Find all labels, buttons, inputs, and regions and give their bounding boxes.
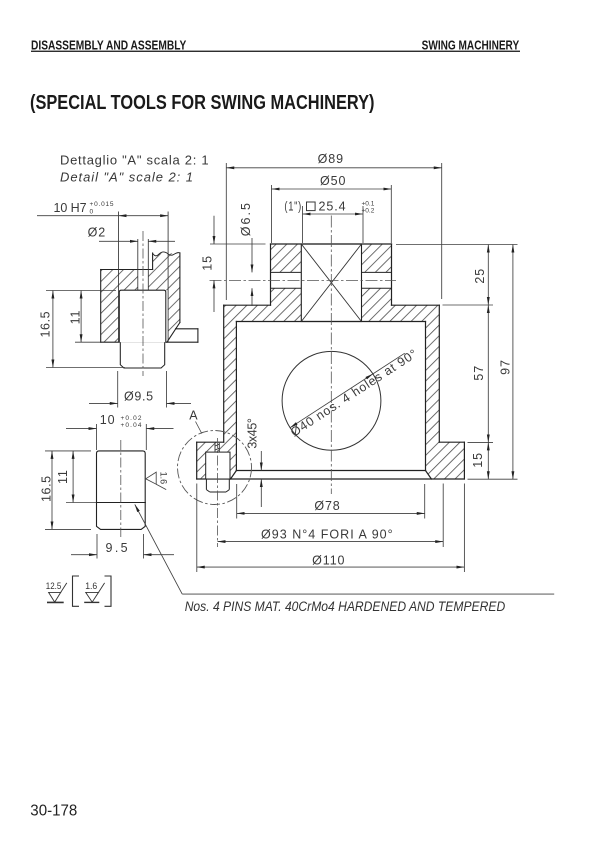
cavity bottom (236, 470, 425, 472)
detail outline (101, 252, 198, 342)
ext 11 bottom (75, 341, 101, 343)
dim 57 line (487, 305, 489, 442)
roughness symbol on pin (146, 472, 167, 490)
dim 3x45 upper (260, 451, 262, 471)
dim 16.5 line (51, 451, 53, 530)
dim 6.5 upper (251, 238, 253, 272)
dim 6.5 lower (251, 288, 253, 306)
svg-text:(1"): (1") (284, 200, 302, 214)
pin in flange (206, 452, 230, 492)
body left wall (223, 305, 225, 442)
hatch left strip (101, 270, 119, 343)
dim 9.5 left (71, 554, 97, 556)
svg-text:Ø110: Ø110 (312, 553, 345, 567)
right ext flange top (468, 441, 494, 443)
ext 16.5 bottom (46, 367, 125, 369)
square hole (301, 244, 361, 322)
svg-text:12.5: 12.5 (46, 581, 62, 591)
svg-text:+0.02: +0.02 (121, 415, 142, 422)
dim 25.4 line (303, 213, 364, 215)
wall inner edge (179, 253, 181, 323)
svg-text:Ø6.5: Ø6.5 (239, 202, 253, 236)
bottom chamfer left (231, 471, 237, 480)
svg-text:+0.2: +0.2 (362, 207, 375, 214)
dim 50 ext lines (271, 185, 273, 243)
flange left edge (196, 442, 198, 479)
dim 9.5 left (89, 402, 118, 404)
wing top (176, 328, 198, 330)
note leader (135, 504, 554, 594)
svg-text:1.6: 1.6 (85, 581, 97, 591)
bracket open (73, 576, 80, 606)
svg-text:10 H7: 10 H7 (54, 201, 88, 215)
svg-text:Nos. 4 PINS MAT. 40CrMo4 HARDE: Nos. 4 PINS MAT. 40CrMo4 HARDENED AND TE… (185, 599, 506, 614)
wing right (197, 329, 199, 342)
svg-text:0: 0 (90, 209, 94, 216)
side hole lines (271, 272, 392, 288)
main centerline (330, 216, 332, 495)
dim 110 ext lines (196, 484, 198, 573)
body right wall (438, 305, 440, 442)
dim 16.5 line (52, 291, 54, 368)
dim 10 left (66, 428, 97, 430)
step top left (224, 304, 271, 306)
dim 97 line (512, 245, 514, 480)
svg-text:97: 97 (499, 359, 513, 375)
detail pin (119, 290, 166, 368)
cavity right wall (425, 322, 427, 471)
right ext bottom (468, 478, 518, 480)
dim 93 ext right (442, 484, 444, 548)
flange top left (197, 441, 224, 443)
dim 3x45 lower (260, 479, 262, 507)
dim 89 ext lines (225, 163, 227, 300)
dim 9.5 right (144, 554, 175, 556)
svg-text:Ø40 nos. 4 holes at 90°: Ø40 nos. 4 holes at 90° (288, 346, 420, 439)
ext 11 bottom (66, 502, 96, 504)
svg-text:25.4: 25.4 (319, 200, 347, 214)
svg-text:10: 10 (100, 413, 116, 427)
dim 78 line (237, 512, 425, 514)
dim 15 left upper (213, 216, 215, 244)
dim 25 line (487, 245, 489, 306)
bore leader diameter line (290, 374, 373, 428)
svg-text:Ø89: Ø89 (318, 152, 344, 166)
svg-text:Ø93 N°4 FORI A 90°: Ø93 N°4 FORI A 90° (261, 527, 394, 541)
svg-text:+0.04: +0.04 (121, 422, 142, 429)
detail circle A (178, 431, 252, 505)
hatch right column (167, 253, 180, 342)
chamfer (167, 323, 180, 343)
dim 15 left lower (213, 280, 215, 312)
detail centerline (142, 231, 144, 376)
part outline (197, 244, 465, 479)
flange right edge (463, 442, 465, 479)
svg-text:+0.1: +0.1 (362, 200, 375, 207)
flange top right (439, 441, 464, 443)
svg-text:Dettaglio "A" scala 2: 1: Dettaglio "A" scala 2: 1 (60, 153, 209, 168)
pin hole edges (119, 212, 169, 343)
square hole cross (301, 244, 361, 322)
dim 50 line (272, 188, 392, 190)
side hole centerline (210, 279, 397, 281)
svg-text:16.5: 16.5 (39, 475, 53, 502)
pin centerline (217, 438, 219, 547)
step top right (392, 304, 440, 306)
cavity left wall (235, 322, 237, 471)
big bore circle (282, 351, 381, 450)
dim 9.5 ext (96, 534, 98, 559)
svg-text:3x45°: 3x45° (246, 417, 260, 449)
svg-text:30-178: 30-178 (30, 802, 77, 819)
dim 25.4 ext lines (302, 206, 304, 243)
dim 10 ext (96, 424, 98, 450)
svg-text:Ø78: Ø78 (314, 499, 340, 513)
svg-text:1.6: 1.6 (158, 472, 168, 485)
vent hole above pin (215, 443, 219, 452)
svg-text:57: 57 (472, 365, 486, 381)
pin centerline (120, 440, 122, 537)
svg-text:DISASSEMBLY AND ASSEMBLY: DISASSEMBLY AND ASSEMBLY (31, 39, 187, 53)
svg-text:16.5: 16.5 (38, 311, 52, 338)
hatch above pin right (148, 253, 168, 290)
dim 15 right line (487, 442, 489, 479)
flange top (101, 269, 153, 271)
detail dims (37, 216, 191, 408)
svg-text:11: 11 (56, 469, 70, 484)
top block right side (391, 244, 393, 305)
part bottom (197, 478, 465, 480)
detail dim texts (38, 201, 154, 404)
pin dims (45, 424, 174, 559)
vent hole edges (138, 239, 149, 290)
svg-text:Detail "A" scale 2: 1: Detail "A" scale 2: 1 (60, 170, 193, 185)
svg-text:25: 25 (473, 268, 487, 284)
bore leader extension (373, 353, 405, 374)
label A leader (196, 422, 202, 434)
svg-text:Ø2: Ø2 (88, 225, 106, 239)
hatch right half (362, 244, 465, 479)
svg-text:(SPECIAL TOOLS FOR SWING MACHI: (SPECIAL TOOLS FOR SWING MACHINERY) (30, 92, 375, 114)
ext 16.5 top (46, 290, 116, 292)
dim 11 line (80, 291, 82, 343)
left edge (100, 270, 102, 343)
symbol 1.6 (84, 583, 104, 603)
svg-text:A: A (189, 409, 198, 423)
dim 93 line (218, 541, 444, 543)
header rule (31, 50, 520, 52)
svg-text:Ø9.5: Ø9.5 (124, 390, 154, 404)
svg-text:+0.015: +0.015 (90, 201, 114, 208)
hatch above pin left (119, 270, 138, 291)
flange bottom (101, 341, 198, 343)
svg-text:SWING MACHINERY: SWING MACHINERY (422, 39, 520, 53)
dim 89 line (226, 167, 441, 169)
top block left side (270, 244, 272, 305)
step edge (152, 253, 154, 270)
svg-text:Ø50: Ø50 (320, 174, 346, 188)
dim 2 right (148, 240, 175, 242)
right ext top surface (396, 244, 518, 246)
svg-text:11: 11 (69, 310, 83, 325)
hatch left half (197, 244, 302, 479)
cavity top (236, 321, 425, 323)
svg-text:15: 15 (200, 255, 214, 271)
dim 10 right (146, 428, 173, 430)
top surface ext left (210, 243, 266, 245)
top surface (271, 243, 392, 245)
dim 2 left (99, 240, 138, 242)
pin outline (97, 451, 146, 530)
break wave (153, 252, 180, 256)
ext 16.5 bottom (45, 528, 91, 530)
bottom chamfer right (426, 471, 432, 480)
pin dim texts (39, 413, 142, 555)
bracket close (105, 576, 112, 606)
dim 110 line (197, 566, 465, 568)
dim 11 line (72, 451, 74, 503)
dim 78 ext lines (236, 484, 238, 519)
svg-text:9.5: 9.5 (106, 541, 129, 555)
dim texts main (200, 152, 512, 567)
right ext step (443, 304, 494, 306)
dim 9.5 ext lines (117, 371, 119, 408)
svg-text:15: 15 (471, 452, 485, 468)
ext 16.5 top (45, 450, 91, 452)
dim 10H7 line (37, 215, 119, 217)
dim 9.5 right (167, 402, 192, 404)
symbol 12.5 (47, 583, 67, 603)
